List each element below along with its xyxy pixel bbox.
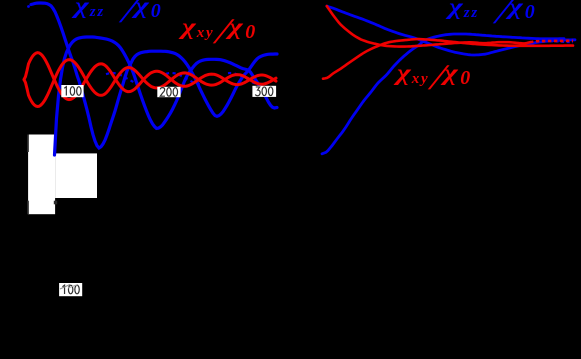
blue start dot strand A — [27, 5, 30, 8]
right panel red curve dashed tail — [530, 41, 573, 42]
dark axis mark lower on white box — [27, 201, 29, 215]
blue curve chi_zz left strand B — [55, 37, 278, 155]
dashed blue curve left panel — [106, 73, 266, 84]
dark curve dot on white box — [54, 201, 57, 205]
right panel red curve from middle — [323, 39, 573, 79]
right panel blue curve from bottom — [322, 34, 564, 154]
white legend box left tall — [28, 135, 55, 215]
label chi_zz/chi_0 left blue — [75, 0, 161, 31]
label chi_zz/chi_0 right blue — [449, 0, 535, 32]
white legend box right — [55, 153, 97, 198]
label chi_xy/chi_0 left red — [182, 10, 255, 52]
right panel blue curve from top — [327, 6, 575, 55]
right panel red curve from top — [327, 6, 530, 47]
tick label 300 left axis — [252, 86, 276, 97]
blue curve chi_zz left strand A — [31, 3, 277, 148]
tick label 100 bottom axis — [59, 283, 82, 296]
gray streaks over bottom tick — [60, 285, 70, 290]
red curve chi_xy left lower strand — [24, 60, 276, 107]
tick label 100 left axis — [61, 85, 83, 97]
red curve chi_xy left upper strand — [24, 53, 276, 100]
right panel dashed blue — [550, 41, 573, 42]
tick label 200 left axis — [157, 87, 180, 97]
label chi_xy/chi_0 right red — [397, 56, 470, 98]
dark axis mark upper on white box — [27, 135, 29, 153]
